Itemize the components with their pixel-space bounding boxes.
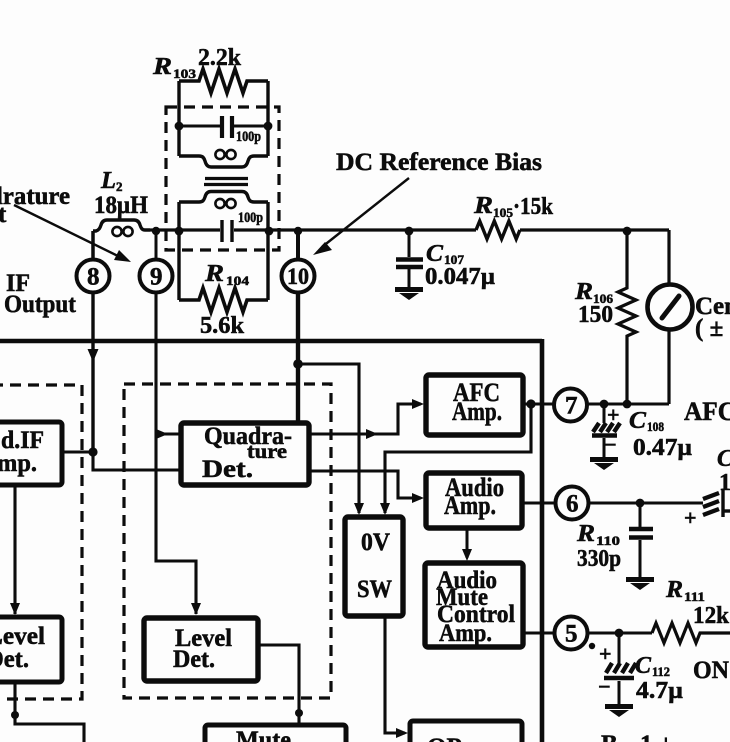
svg-text:Amp.: Amp. <box>439 620 492 647</box>
svg-text:R: R <box>473 193 493 219</box>
svg-text:Output: Output <box>4 291 77 318</box>
svg-text:12k: 12k <box>693 603 730 629</box>
svg-text:0.47µ: 0.47µ <box>633 435 692 461</box>
pin 9 <box>140 260 173 293</box>
wire: pin7 to meter branch <box>587 400 669 409</box>
capacitor C112 <box>604 633 636 705</box>
capacitor C107 <box>396 227 423 288</box>
wire: pin10 riser into IC <box>296 293 300 421</box>
svg-text:112: 112 <box>652 664 670 679</box>
dashed box middle IC section <box>124 384 331 698</box>
block OP (cut) <box>410 721 522 742</box>
label IF Output <box>4 270 77 318</box>
svg-text:+: + <box>607 402 620 427</box>
wire: AFC out branch to 0V SW <box>380 404 531 515</box>
wire: level det middle out to mute <box>258 645 303 724</box>
svg-text:·15k: ·15k <box>513 194 554 220</box>
svg-text:104: 104 <box>226 273 250 288</box>
svg-text:5.6k: 5.6k <box>200 313 245 339</box>
wire: IF amp to level det left <box>10 485 20 615</box>
svg-text:Det.: Det. <box>202 456 253 483</box>
label L2 <box>94 168 148 219</box>
svg-text:5: 5 <box>565 621 578 648</box>
svg-text:103: 103 <box>173 66 197 81</box>
ground 330p <box>626 577 654 590</box>
svg-text:Amp.: Amp. <box>444 491 496 520</box>
svg-text:7: 7 <box>565 393 578 420</box>
ground C112 <box>605 704 633 717</box>
svg-text:t: t <box>0 201 7 228</box>
svg-text:B: B <box>601 731 618 742</box>
svg-text:4.7µ: 4.7µ <box>636 678 683 704</box>
svg-text:R: R <box>152 54 172 80</box>
svg-text:6: 6 <box>566 491 579 518</box>
svg-text:330p: 330p <box>577 546 621 572</box>
pin 7 <box>554 389 587 422</box>
dashed box left IC section <box>0 385 82 699</box>
wire: level det left out <box>11 682 84 742</box>
svg-text:C: C <box>629 408 647 434</box>
svg-text:Det.: Det. <box>0 646 29 673</box>
svg-text:0V: 0V <box>361 529 390 556</box>
svg-text:AFC: AFC <box>684 397 730 426</box>
ground C107 <box>395 287 423 300</box>
svg-text:lrature: lrature <box>0 183 70 210</box>
wire: primary tank left/right verticals <box>179 81 268 156</box>
wire: main DC reference bias bus y=230 <box>150 228 669 231</box>
arrow to pin 10 <box>313 178 409 255</box>
svg-text:Amp.: Amp. <box>452 397 502 426</box>
pin 8 <box>77 260 110 293</box>
capacitor 330p <box>629 503 653 578</box>
wire: IF amp out to pin8 riser junction <box>62 447 179 470</box>
label ON <box>693 657 729 684</box>
pin 6 <box>556 487 589 520</box>
svg-text:9: 9 <box>150 264 163 291</box>
wire: pin8 riser into IC <box>88 293 99 452</box>
svg-text:0.047µ: 0.047µ <box>425 264 495 290</box>
label bottom cut text <box>601 731 673 742</box>
block Level Det middle <box>144 618 258 681</box>
IC outline right edge <box>540 339 545 742</box>
arrow to pin 9 <box>14 205 131 262</box>
svg-text:DC Reference Bias: DC Reference Bias <box>336 149 542 176</box>
wire: AFC out to pin7 <box>523 399 554 408</box>
resistor R103 2.2k <box>179 69 268 93</box>
block 0V SW <box>345 517 403 616</box>
svg-text:+: + <box>684 505 697 530</box>
block Sound IF Amp (cut) <box>0 422 62 485</box>
svg-text:10: 10 <box>287 264 309 289</box>
svg-text:+: + <box>599 641 612 666</box>
pin 5 <box>555 617 588 650</box>
svg-text:111: 111 <box>684 589 705 604</box>
svg-text:Mute: Mute <box>236 727 291 742</box>
svg-text:mp.: mp. <box>0 450 37 477</box>
svg-text:ture: ture <box>247 439 287 463</box>
label AFC <box>684 397 730 426</box>
wire: quadrature to AFC amp <box>310 399 424 439</box>
svg-text:L: L <box>100 168 116 194</box>
meter (center tuning) <box>648 230 693 404</box>
IC outline top edge <box>0 339 542 344</box>
svg-text:C: C <box>717 446 730 472</box>
capacitor C109 coupling (cut) <box>703 489 730 517</box>
wire: pin5 to R111 <box>587 629 652 638</box>
capacitor primary 100p <box>175 116 273 138</box>
svg-text:18µH: 18µH <box>94 192 148 219</box>
block Mute (cut) <box>205 725 346 742</box>
svg-text:R: R <box>665 577 683 603</box>
inductor L2 <box>93 220 150 236</box>
svg-text:150: 150 <box>578 302 613 328</box>
wire: pin10 branch to 0V SW <box>293 359 364 515</box>
svg-text:2.2k: 2.2k <box>198 45 242 71</box>
node dot below pin5 <box>589 643 595 649</box>
label quadrature (cut) <box>0 183 70 228</box>
wire: pin9 riser into IC <box>156 293 201 615</box>
resistor R106 150 <box>618 227 636 409</box>
wire: pin6 to coupling cap <box>588 499 703 508</box>
svg-text:1 +: 1 + <box>640 731 673 742</box>
svg-text:1: 1 <box>719 470 730 496</box>
capacitor secondary 100p on bus <box>175 202 274 300</box>
svg-text:100p: 100p <box>236 129 261 145</box>
svg-text:OP: OP <box>427 734 462 742</box>
svg-text:C: C <box>635 653 652 679</box>
wire: 0V SW out to OP block <box>385 617 408 738</box>
wire: riser pin9 to bus <box>152 227 160 259</box>
svg-text:108: 108 <box>647 419 664 434</box>
block Level Det left (cut) <box>0 617 62 682</box>
wire: audio amp to mute control <box>462 528 472 561</box>
svg-text:100p: 100p <box>238 210 263 226</box>
secondary coil <box>179 192 268 209</box>
svg-text:Det.: Det. <box>173 646 215 673</box>
resistor R111 12k <box>652 623 730 643</box>
transformer core <box>204 179 248 185</box>
wire: mute control out to pin5 <box>523 631 554 634</box>
resistor R104 5.6k <box>179 288 268 312</box>
resistor R105 15k <box>476 221 520 239</box>
svg-text:ON: ON <box>693 657 729 684</box>
svg-text:105: 105 <box>493 205 514 220</box>
capacitor C108 <box>592 404 620 458</box>
label Center meter (cut) <box>695 293 730 342</box>
svg-text:SW: SW <box>357 576 392 603</box>
wire: audio out to pin6 <box>521 501 555 504</box>
svg-text:( ±: ( ± <box>695 315 723 342</box>
svg-text:R: R <box>204 261 224 287</box>
block Quadrature Det <box>181 423 309 485</box>
wire: riser pin8 to bus <box>91 231 95 259</box>
block Audio Mute Control Amp <box>425 563 523 647</box>
primary coil <box>179 150 268 167</box>
block AFC Amp <box>426 375 523 435</box>
svg-text:−: − <box>604 432 617 457</box>
pin 10 <box>282 260 315 293</box>
ground C108 <box>590 457 618 470</box>
wire: pin9 branch to quadrature <box>156 429 179 439</box>
dashed transformer box <box>166 107 279 250</box>
wire: quadrature to audio amp <box>310 471 424 503</box>
svg-text:−: − <box>598 674 611 699</box>
wire: riser pin10 to bus <box>294 227 302 259</box>
svg-text:R: R <box>576 521 595 547</box>
block Audio Amp <box>426 473 522 528</box>
svg-text:8: 8 <box>87 264 100 291</box>
label DC Reference Bias <box>336 149 542 176</box>
